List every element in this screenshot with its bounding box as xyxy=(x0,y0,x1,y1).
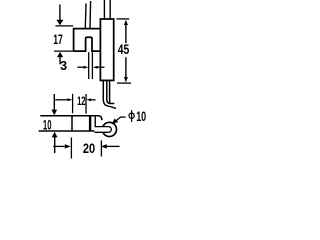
svg-text:10: 10 xyxy=(43,117,52,132)
svg-text:17: 17 xyxy=(53,32,63,47)
svg-text:45: 45 xyxy=(118,42,130,57)
svg-text:3: 3 xyxy=(60,59,67,73)
svg-text:10: 10 xyxy=(136,109,146,124)
svg-text:12: 12 xyxy=(77,96,85,108)
svg-text:20: 20 xyxy=(83,141,95,156)
